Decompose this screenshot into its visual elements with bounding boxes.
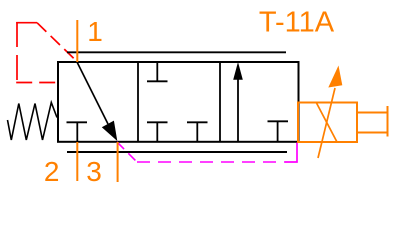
section3 flow path up arrow shaft: [237, 79, 239, 142]
throttle restriction diagonal: [317, 103, 338, 142]
port line 2 (orange): [76, 142, 78, 181]
section2 bottom blocked port T left: [147, 122, 168, 142]
throttle outlet port upper line: [358, 112, 388, 114]
valve section divider 2: [219, 62, 221, 142]
throttle valve body box (orange): [298, 103, 357, 143]
pilot line box left vertical (red dashed): [16, 22, 18, 82]
adjustability arrow shaft: [318, 88, 335, 158]
section2 top blocked port T: [147, 62, 168, 82]
svg-text:T-11A: T-11A: [259, 6, 335, 38]
drain line corner and right vertical (magenta): [285, 143, 297, 163]
bottom plate line: [67, 151, 287, 153]
throttle outlet port lower line: [358, 132, 388, 134]
proportional actuation arrowhead: [102, 121, 118, 141]
proportional actuation arrow shaft: [77, 62, 108, 124]
svg-text:2: 2: [44, 156, 60, 187]
valve section divider 1: [137, 62, 139, 142]
svg-text:1: 1: [87, 16, 103, 47]
port line 3 (orange): [117, 142, 119, 182]
svg-text:3: 3: [86, 156, 102, 187]
section2 bottom blocked port T right: [187, 122, 208, 142]
return spring: [8, 103, 58, 141]
pilot line diagonal to valve corner (red dashed): [37, 23, 77, 62]
valve body outline: [58, 62, 299, 142]
pilot line box top horizontal (red dashed): [16, 22, 37, 24]
drain line diagonal (magenta dashed): [117, 142, 137, 162]
section3 flow path up arrowhead: [233, 62, 243, 80]
drain line bottom horizontal (magenta dashed): [137, 161, 285, 163]
pilot line box bottom horizontal (red dashed): [16, 82, 57, 84]
adjustability arrowhead: [328, 66, 342, 88]
section3 bottom blocked port T: [268, 121, 289, 142]
port line 1 (orange): [76, 20, 78, 62]
top plate line: [67, 51, 286, 53]
throttle outlet port end bar: [387, 106, 389, 137]
section1 bottom blocked port T: [67, 122, 88, 142]
